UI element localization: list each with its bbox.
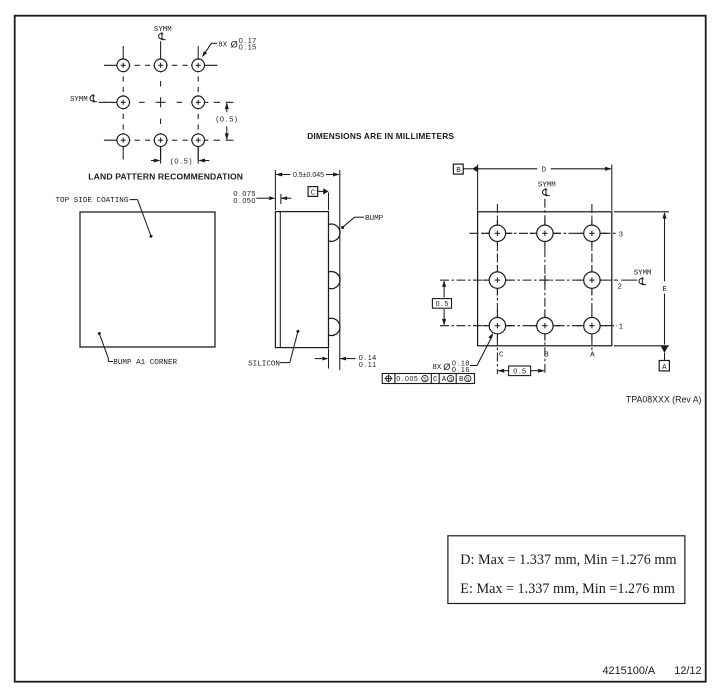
svg-text:E: E bbox=[662, 286, 667, 294]
center B2 cross (no pad) bbox=[156, 101, 166, 103]
bump (bottom view) bbox=[537, 225, 553, 241]
wire symm leader right bbox=[621, 279, 637, 281]
svg-text:SYMM: SYMM bbox=[70, 96, 88, 104]
bump (bottom view) bbox=[489, 225, 505, 241]
bump (bottom view) bbox=[537, 318, 553, 334]
svg-text:.: . bbox=[457, 365, 459, 374]
svg-text:5: 5 bbox=[522, 367, 526, 376]
svg-text:.: . bbox=[244, 43, 246, 52]
svg-text:1: 1 bbox=[372, 360, 376, 369]
svg-text:SYMM: SYMM bbox=[634, 270, 652, 278]
land pad bbox=[117, 96, 130, 109]
svg-text:): ) bbox=[235, 115, 237, 124]
svg-text:0: 0 bbox=[359, 360, 363, 369]
dimension E bbox=[614, 211, 669, 213]
feature control frame bbox=[382, 374, 474, 384]
svg-text:Ø: Ø bbox=[443, 362, 450, 372]
svg-text:6: 6 bbox=[465, 365, 469, 374]
svg-text:LAND PATTERN RECOMMENDATION: LAND PATTERN RECOMMENDATION bbox=[88, 171, 243, 181]
svg-text:D: D bbox=[542, 167, 547, 175]
land pad bbox=[192, 96, 205, 109]
dimension D bbox=[453, 164, 463, 174]
datum C box bbox=[308, 187, 318, 197]
svg-text:S: S bbox=[423, 377, 427, 383]
svg-text:.: . bbox=[441, 299, 443, 308]
land column 1 centerline bbox=[122, 46, 124, 65]
svg-text:): ) bbox=[189, 156, 191, 165]
svg-text:8X: 8X bbox=[218, 41, 227, 49]
bottom row 2 centerline bbox=[440, 279, 612, 281]
side view outline bbox=[275, 212, 328, 348]
land pad bbox=[117, 134, 130, 147]
svg-text:SYMM: SYMM bbox=[154, 26, 172, 34]
svg-text:0: 0 bbox=[396, 376, 400, 383]
svg-text:A: A bbox=[442, 376, 447, 384]
datum A box bbox=[659, 361, 669, 371]
bottom row 3 centerline bbox=[470, 232, 618, 234]
wire symm centerline top (land) bbox=[160, 41, 162, 46]
svg-text:C: C bbox=[311, 190, 316, 198]
land pattern view bbox=[104, 46, 218, 160]
bump (bottom view) bbox=[584, 318, 600, 334]
svg-text:8X: 8X bbox=[432, 364, 441, 372]
land pad bbox=[154, 134, 167, 147]
land pad bbox=[192, 134, 205, 147]
svg-text:BUMP: BUMP bbox=[365, 215, 384, 223]
svg-text:1: 1 bbox=[461, 365, 465, 374]
svg-text:12/12: 12/12 bbox=[674, 665, 701, 677]
datum C leader bbox=[318, 190, 324, 192]
svg-text:TPA08XXX (Rev A): TPA08XXX (Rev A) bbox=[626, 395, 702, 405]
svg-text:C: C bbox=[433, 376, 438, 384]
svg-text:1: 1 bbox=[619, 324, 624, 332]
svg-text:TOP SIDE COATING: TOP SIDE COATING bbox=[56, 197, 129, 205]
dimension (0.5) right (land) bbox=[204, 101, 208, 103]
svg-text:5: 5 bbox=[184, 156, 188, 165]
svg-text:B: B bbox=[456, 167, 461, 175]
bump (side view) bbox=[329, 272, 340, 289]
leader top side coating bbox=[130, 199, 138, 201]
svg-text:S: S bbox=[449, 377, 453, 383]
wire symm leader left (land) bbox=[99, 101, 105, 103]
svg-text:0: 0 bbox=[242, 196, 246, 205]
svg-text:0: 0 bbox=[436, 299, 440, 308]
svg-text:5: 5 bbox=[229, 115, 233, 124]
callout 8X dia 0.17/0.15 bbox=[211, 42, 217, 44]
side view coating inner line bbox=[279, 212, 281, 348]
bottom row 1 centerline bbox=[440, 325, 617, 327]
land row 2 centerline bbox=[104, 101, 123, 103]
svg-text:S: S bbox=[466, 377, 470, 383]
svg-text:3: 3 bbox=[619, 231, 623, 239]
bump (bottom view) bbox=[584, 225, 600, 241]
svg-text:5: 5 bbox=[247, 196, 251, 205]
svg-text:4215100/A: 4215100/A bbox=[603, 665, 656, 677]
svg-text:0.5±0.045: 0.5±0.045 bbox=[293, 172, 324, 179]
svg-text:.: . bbox=[402, 376, 404, 383]
dimension 0.5 bottom (boxed) bbox=[499, 370, 509, 372]
land pad bbox=[154, 59, 167, 72]
svg-text:C: C bbox=[499, 351, 504, 359]
svg-text:0: 0 bbox=[513, 367, 517, 376]
bump (side view) bbox=[329, 318, 340, 335]
svg-text:0: 0 bbox=[220, 115, 224, 124]
land column 3 centerline bbox=[197, 46, 199, 65]
bump (side view) bbox=[329, 224, 340, 241]
dimension 0.075/0.050 bbox=[280, 194, 282, 204]
svg-text:0: 0 bbox=[409, 376, 413, 383]
svg-text:.: . bbox=[226, 115, 228, 124]
bump (bottom view) bbox=[489, 318, 505, 334]
leader bump A1 corner bbox=[98, 332, 101, 335]
svg-text:0: 0 bbox=[452, 365, 456, 374]
svg-text:SILICON: SILICON bbox=[248, 360, 280, 368]
svg-text:0: 0 bbox=[239, 43, 243, 52]
bottom column C centerline bbox=[496, 204, 498, 374]
bottom column B centerline bbox=[544, 199, 546, 374]
svg-text:B: B bbox=[544, 351, 549, 359]
svg-text:.: . bbox=[239, 196, 241, 205]
dimension 0.14/0.11 bbox=[328, 349, 330, 369]
bump (bottom view) bbox=[584, 272, 600, 288]
land pad bbox=[117, 59, 130, 72]
bottom column A centerline bbox=[591, 204, 593, 354]
land row 3 centerline bbox=[104, 139, 123, 141]
svg-text:B: B bbox=[459, 376, 464, 384]
land column 2 centerline bbox=[160, 46, 162, 65]
svg-text:D: Max = 1.337 mm, Min =1.276: D: Max = 1.337 mm, Min =1.276 mm bbox=[460, 552, 676, 568]
bump (bottom view) bbox=[489, 272, 505, 288]
svg-text:0: 0 bbox=[233, 196, 237, 205]
svg-text:SYMM: SYMM bbox=[538, 182, 556, 190]
land row 1 centerline bbox=[104, 64, 123, 66]
svg-text:0: 0 bbox=[174, 156, 178, 165]
svg-text:A: A bbox=[590, 351, 595, 359]
svg-text:.: . bbox=[364, 360, 366, 369]
position symbol bbox=[386, 376, 391, 381]
leader bump bbox=[355, 216, 365, 218]
top view outline bbox=[80, 212, 215, 347]
leader 8X dia 0.18/0.16 bbox=[470, 365, 477, 367]
note box D/E max min bbox=[448, 536, 685, 604]
svg-text:0: 0 bbox=[405, 376, 409, 383]
svg-text:E: Max = 1.337 mm, Min =1.276: E: Max = 1.337 mm, Min =1.276 mm bbox=[460, 581, 675, 597]
svg-text:.: . bbox=[180, 156, 182, 165]
dimension (0.5) bottom (land) bbox=[160, 147, 162, 164]
datum A symbol bbox=[661, 346, 668, 353]
leader silicon bbox=[280, 362, 290, 364]
bottom view outline bbox=[478, 212, 612, 346]
svg-text:5: 5 bbox=[444, 299, 448, 308]
svg-text:0: 0 bbox=[251, 196, 255, 205]
svg-text:5: 5 bbox=[414, 376, 418, 383]
svg-text:.: . bbox=[519, 367, 521, 376]
svg-text:2: 2 bbox=[618, 284, 622, 292]
svg-text:DIMENSIONS ARE IN MILLIMETERS: DIMENSIONS ARE IN MILLIMETERS bbox=[307, 131, 454, 141]
dimension 0.5 left (boxed) bbox=[443, 281, 445, 297]
dimension 0.5+/-0.045 bbox=[274, 170, 276, 210]
svg-text:Ø: Ø bbox=[231, 40, 238, 50]
svg-text:BUMP A1 CORNER: BUMP A1 CORNER bbox=[113, 359, 177, 367]
land pad bbox=[192, 59, 205, 72]
center B2 cross (no bump) bbox=[540, 279, 550, 281]
svg-text:5: 5 bbox=[252, 43, 256, 52]
svg-text:A: A bbox=[662, 364, 667, 372]
